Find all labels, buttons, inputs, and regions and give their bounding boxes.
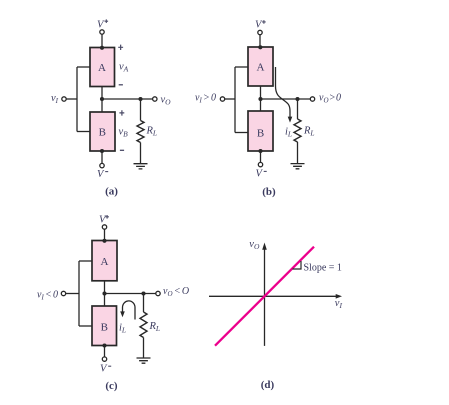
svg-text:vO>0: vO>0 (319, 92, 341, 104)
svg-text:A: A (101, 256, 109, 268)
wire RL to ground (b) (297, 142, 299, 164)
svg-text:Slope = 1: Slope = 1 (304, 262, 342, 273)
vI input terminal (b) (220, 97, 224, 101)
current arrow iL (c) (120, 301, 135, 320)
node at RL top (b) (295, 97, 299, 101)
vA polarity + (a) (118, 45, 123, 50)
V- terminal (c) (102, 357, 106, 361)
wire A bottom to B top (a) (101, 87, 103, 113)
wire V+ to box A (b) (259, 35, 261, 47)
svg-text:vI: vI (335, 298, 343, 310)
V- supply label (b) (256, 169, 267, 180)
node at A top (c) (102, 239, 106, 243)
input bus vertical (c) (78, 261, 80, 326)
resistor RL (b) (294, 119, 301, 142)
wire to A input (c) (79, 260, 92, 262)
svg-text:V: V (256, 169, 264, 180)
output wire (a) (102, 98, 153, 100)
svg-text:V: V (255, 20, 263, 31)
resistor RL (c) (140, 312, 147, 338)
V+ terminal (c) (102, 225, 106, 229)
svg-text:A: A (98, 62, 106, 74)
vI input terminal (a) (62, 97, 66, 101)
svg-text:vI<0: vI<0 (37, 289, 58, 301)
svg-text:V: V (97, 169, 105, 180)
V- terminal (a) (100, 163, 104, 167)
node at B bottom (a) (100, 149, 104, 153)
wire A bottom to B top (c) (104, 281, 106, 306)
amplifier B (b) (248, 111, 273, 151)
V+ supply label (c) (99, 215, 109, 226)
wire B bottom to V- (a) (101, 151, 103, 163)
node at B bottom (c) (102, 343, 106, 347)
V+ terminal (b) (258, 30, 262, 34)
wire node to resistor RL (c) (143, 294, 145, 313)
svg-text:vB: vB (119, 127, 129, 139)
output wire (b) (261, 98, 311, 100)
wire V+ to box A (a) (101, 34, 103, 47)
wire V+ to box A (c) (104, 229, 106, 240)
node at RL top (c) (141, 291, 145, 295)
input bus vertical (a) (76, 67, 78, 132)
wire B bottom to V- (b) (260, 151, 262, 162)
wire RL to ground (a) (140, 143, 142, 164)
input wire (c) (66, 293, 79, 295)
x axis vI (d) (209, 294, 342, 299)
svg-text:RL: RL (303, 126, 315, 138)
input wire (a) (66, 98, 77, 100)
svg-text:vA: vA (119, 61, 129, 73)
V- terminal (b) (258, 162, 262, 166)
svg-text:(d): (d) (261, 379, 275, 391)
amplifier A (c) (92, 241, 117, 281)
wire to A input (a) (77, 66, 90, 68)
V+ supply label (b) (255, 20, 266, 31)
vO terminal (c) (156, 291, 160, 295)
svg-text:(a): (a) (105, 186, 118, 198)
svg-text:B: B (101, 322, 108, 334)
node at B bottom (b) (258, 149, 262, 153)
V+ supply label (a) (97, 19, 108, 30)
ground (b) (291, 164, 305, 169)
vB polarity + (a) (119, 110, 124, 115)
output node (a) (100, 97, 104, 101)
amplifier B (a) (90, 112, 115, 151)
V- supply label (c) (100, 364, 111, 375)
input wire (b) (225, 98, 235, 100)
svg-text:(c): (c) (105, 380, 118, 392)
wire A bottom to B top (b) (260, 86, 262, 111)
svg-text:vO<O: vO<O (163, 286, 189, 298)
svg-text:RL: RL (149, 321, 161, 333)
amplifier A (b) (248, 47, 273, 86)
wire to B input (c) (79, 325, 92, 327)
ground (c) (137, 358, 151, 363)
svg-text:B: B (99, 127, 106, 139)
svg-text:RL: RL (146, 126, 158, 138)
resistor RL (a) (137, 121, 144, 143)
V- supply label (a) (97, 169, 108, 180)
slope indicator triangle (d) (293, 261, 302, 269)
vO terminal (a) (153, 97, 157, 101)
amplifier A (a) (90, 48, 115, 87)
node at A top (b) (258, 45, 262, 49)
vI input terminal (c) (61, 291, 65, 295)
transfer line slope 1 (d) (215, 247, 314, 346)
svg-text:(b): (b) (262, 186, 276, 198)
wire node to resistor RL (a) (140, 99, 142, 121)
wire to B input (a) (77, 131, 90, 133)
node at A top (a) (100, 46, 104, 50)
input bus vertical (b) (234, 67, 236, 133)
vB polarity - (a) (120, 149, 124, 151)
svg-text:iL: iL (285, 126, 292, 138)
wire to A input (b) (235, 66, 248, 68)
ground (a) (134, 164, 148, 169)
svg-text:B: B (257, 128, 264, 140)
output wire (c) (105, 293, 156, 295)
svg-text:A: A (257, 62, 265, 74)
svg-text:V: V (97, 20, 105, 31)
current arrow iL (b) (276, 67, 293, 123)
wire B bottom to V- (c) (104, 346, 106, 357)
y axis vO (d) (262, 243, 267, 346)
svg-text:vO: vO (249, 239, 260, 251)
wire to B input (b) (235, 132, 248, 134)
svg-text:vI: vI (51, 93, 59, 105)
node at RL top (a) (138, 97, 142, 101)
vA polarity - (a) (119, 84, 123, 86)
vO terminal (b) (310, 97, 314, 101)
wire RL to ground (c) (143, 338, 145, 359)
wire node to resistor RL (b) (297, 99, 299, 119)
svg-text:vI>0: vI>0 (195, 93, 216, 105)
output node (c) (102, 291, 106, 295)
svg-text:iL: iL (119, 322, 126, 334)
output node (b) (258, 97, 262, 101)
svg-text:vO: vO (161, 95, 172, 107)
amplifier B (c) (92, 306, 117, 346)
V+ terminal (a) (100, 30, 104, 34)
svg-text:V: V (100, 364, 108, 375)
